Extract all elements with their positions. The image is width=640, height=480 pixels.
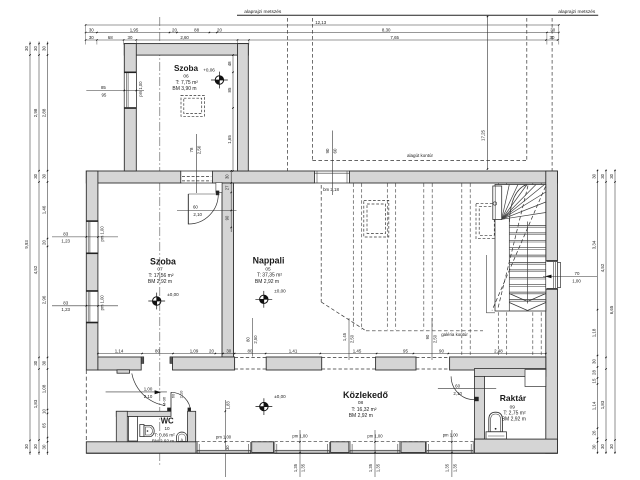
left dim line detail <box>41 42 48 456</box>
drop line 1,35 at 375 <box>368 430 381 477</box>
wall bottom pier 3 <box>401 442 426 453</box>
svg-text:galéria kontúr: galéria kontúr <box>441 332 468 337</box>
svg-text:pm 1,00: pm 1,00 <box>443 432 459 437</box>
leader door 60 2,10 <box>177 210 237 212</box>
wc toilet <box>140 425 154 437</box>
svg-text:1,45: 1,45 <box>342 332 347 341</box>
svg-text:30: 30 <box>41 360 46 365</box>
label pm 1,00 szoba w1 <box>100 226 105 242</box>
extension stubs top chain <box>86 26 559 45</box>
label pm 1,00 szoba w2 <box>100 295 105 311</box>
svg-text:2,88: 2,88 <box>41 108 46 117</box>
svg-text:2,10: 2,10 <box>179 390 184 399</box>
svg-text:2,50: 2,50 <box>253 335 258 344</box>
svg-text:Raktár: Raktár <box>500 393 527 403</box>
leader door raktar 60 2,10 <box>438 383 496 396</box>
raktar toilet <box>486 412 506 439</box>
svg-text:3,34: 3,34 <box>591 240 596 249</box>
wall middle pier 2 <box>376 357 416 370</box>
label door 60 2,10 <box>193 204 203 217</box>
wall szoba-nappali vertical <box>222 183 234 357</box>
svg-text:80: 80 <box>248 348 253 353</box>
left dim line 9,93 <box>24 42 31 456</box>
wall main top left segment <box>86 171 181 183</box>
svg-text:1,14: 1,14 <box>115 348 124 353</box>
svg-text:20: 20 <box>41 240 46 245</box>
svg-text:1,65: 1,65 <box>227 135 232 144</box>
svg-text:bm 2,18: bm 2,18 <box>323 187 339 192</box>
svg-text:07: 07 <box>157 267 163 273</box>
section line <box>237 14 598 16</box>
svg-text:9,93: 9,93 <box>24 240 29 249</box>
drop line 1,35 at 451.9 <box>445 430 458 477</box>
label WC 10 <box>152 416 175 443</box>
svg-text:17,25: 17,25 <box>480 129 485 141</box>
window right wall <box>546 261 561 290</box>
svg-text:pm 1,00: pm 1,00 <box>292 433 308 438</box>
svg-text:28: 28 <box>591 370 596 375</box>
label kozlekedo +-0,00 <box>274 394 286 399</box>
wall middle door jamb step <box>117 370 130 373</box>
wall middle segment 2 <box>173 357 235 370</box>
bottom wall window sills <box>197 442 473 453</box>
svg-text:83: 83 <box>63 232 68 237</box>
svg-text:T: 37,35 m²: T: 37,35 m² <box>257 273 282 279</box>
label bm 2,18 <box>323 187 339 192</box>
svg-text:90: 90 <box>425 334 430 339</box>
dim window 83 1,23 (2) <box>52 300 118 312</box>
svg-text:2,50: 2,50 <box>432 334 437 343</box>
svg-text:30: 30 <box>609 173 614 178</box>
label alagut kontur <box>407 153 434 158</box>
svg-text:90: 90 <box>439 348 444 353</box>
staircase <box>486 185 546 313</box>
svg-text:1,83: 1,83 <box>33 399 38 408</box>
wall main right <box>546 171 558 453</box>
svg-text:30: 30 <box>600 444 605 449</box>
svg-text:80: 80 <box>246 337 251 342</box>
svg-text:30: 30 <box>33 46 38 51</box>
label Szoba 07 <box>148 257 176 286</box>
svg-text:06: 06 <box>183 74 189 80</box>
dim window 85 95 <box>86 85 144 97</box>
svg-text:1,23: 1,23 <box>61 307 70 312</box>
svg-text:BM 2,92 m: BM 2,92 m <box>148 279 172 285</box>
svg-text:30: 30 <box>89 27 94 32</box>
opening bm 2,18 <box>315 171 350 183</box>
gallery joist dashed strips <box>353 184 541 357</box>
door jamb middle wall left <box>141 357 144 364</box>
svg-text:BM 2,92 m: BM 2,92 m <box>349 413 373 419</box>
svg-text:30: 30 <box>591 173 596 178</box>
wall bottom dashed top edge <box>196 441 474 443</box>
niche below top room <box>181 171 213 183</box>
galeria kontur dashed <box>321 185 483 331</box>
svg-text:10: 10 <box>41 409 46 414</box>
svg-text:20: 20 <box>209 348 214 353</box>
svg-text:1,08: 1,08 <box>41 384 46 393</box>
svg-text:BM 2,92 m: BM 2,92 m <box>255 279 279 285</box>
label pm 1,00 top room <box>138 81 143 97</box>
svg-text:60: 60 <box>333 148 338 153</box>
svg-text:30: 30 <box>226 348 231 353</box>
leader window 70 1,00 <box>543 271 597 283</box>
leader door 1,00 2,10 <box>106 386 167 399</box>
svg-text:2,60: 2,60 <box>180 35 189 40</box>
right dim line 6,65 <box>609 170 616 455</box>
svg-text:±0,00: ±0,00 <box>274 394 286 399</box>
drop line 1,35 at 300 <box>293 430 306 477</box>
wall middle pier 1 <box>266 357 322 370</box>
wall middle right segment <box>450 357 546 370</box>
svg-text:30: 30 <box>550 27 555 32</box>
svg-text:30: 30 <box>24 444 29 449</box>
label Szoba 06 <box>172 64 198 92</box>
svg-text:M-06: M-06 <box>162 396 167 406</box>
bottom outer line <box>86 452 557 454</box>
svg-text:30: 30 <box>225 445 230 450</box>
svg-text:30: 30 <box>41 173 46 178</box>
wall raktar left <box>474 376 484 439</box>
dim 17,25 line <box>487 16 488 170</box>
svg-text:4,52: 4,52 <box>33 265 38 274</box>
labels wc door rotated <box>162 390 184 406</box>
label 17,25 <box>480 129 485 141</box>
svg-text:15: 15 <box>591 378 596 383</box>
wall wc top <box>116 411 171 416</box>
svg-text:20: 20 <box>172 27 177 32</box>
svg-text:30: 30 <box>33 173 38 178</box>
alagut kontur dashed inner-left line <box>311 18 313 161</box>
svg-text:±0,00: ±0,00 <box>274 288 286 293</box>
svg-text:2,96: 2,96 <box>41 295 46 304</box>
wall raktar top <box>474 369 545 377</box>
alagut kontur dashed inner-right line <box>526 18 528 161</box>
raktar niche <box>525 370 546 387</box>
svg-text:30: 30 <box>600 173 605 178</box>
svg-text:1,45: 1,45 <box>353 348 362 353</box>
survey point top room <box>211 72 228 89</box>
label Nappali 05 <box>253 256 285 286</box>
svg-text:2,98: 2,98 <box>33 108 38 117</box>
svg-text:2,10: 2,10 <box>144 394 153 399</box>
alagut kontur dashed left line <box>287 18 289 171</box>
svg-text:2,50: 2,50 <box>349 334 354 343</box>
door jamb szoba upper <box>216 183 222 196</box>
door raktar jamb <box>474 397 478 401</box>
label szoba +-0,00 <box>167 292 179 297</box>
label alaprajzi metszes right <box>558 9 596 15</box>
label pm 1,00 k1 <box>292 433 308 438</box>
label alaprajzi metszes left <box>244 9 282 15</box>
svg-text:65: 65 <box>41 423 46 428</box>
svg-text:1,46: 1,46 <box>41 205 46 214</box>
svg-text:7,65: 7,65 <box>390 35 399 40</box>
opening callout 1,45 2,50 <box>342 318 354 360</box>
svg-text:80: 80 <box>155 348 160 353</box>
svg-text:27: 27 <box>224 185 229 190</box>
svg-text:BM 2,92 m: BM 2,92 m <box>502 416 526 422</box>
svg-text:1,00: 1,00 <box>144 386 153 391</box>
svg-text:30: 30 <box>591 444 596 449</box>
svg-text:pm 1,00: pm 1,00 <box>138 81 143 97</box>
wc small basin <box>177 432 188 442</box>
svg-text:95: 95 <box>403 348 408 353</box>
svg-text:30: 30 <box>89 35 94 40</box>
svg-text:60: 60 <box>170 393 175 398</box>
svg-text:30: 30 <box>24 46 29 51</box>
svg-text:pm 1,00: pm 1,00 <box>216 435 232 440</box>
svg-text:85: 85 <box>227 87 232 92</box>
svg-text:1,00: 1,00 <box>572 278 581 283</box>
svg-text:05: 05 <box>265 266 271 272</box>
centre dash-dot axis <box>159 17 161 467</box>
label pm 1,00 k3 <box>443 432 459 437</box>
wc pm line <box>225 400 231 477</box>
svg-text:30: 30 <box>33 444 38 449</box>
wall top room right <box>238 44 249 171</box>
svg-text:95: 95 <box>101 92 106 97</box>
label galeria kontur <box>441 332 468 337</box>
svg-text:2,10: 2,10 <box>193 212 202 217</box>
svg-text:20: 20 <box>217 27 222 32</box>
wall main top right segment <box>350 171 558 183</box>
svg-text:90: 90 <box>224 215 229 220</box>
window szoba left 1 <box>86 221 98 254</box>
svg-text:1,83: 1,83 <box>600 400 605 409</box>
alagut kontur dashed right line <box>551 18 553 171</box>
dim line 90 60 opening <box>325 131 337 196</box>
middle wall dashed opening 321.7 <box>322 358 376 369</box>
wall bottom pier 2 <box>331 442 349 453</box>
svg-text:1,95: 1,95 <box>130 27 139 32</box>
wall wc left block <box>116 411 127 442</box>
svg-text:26: 26 <box>591 430 596 435</box>
svg-text:±0,00: ±0,00 <box>167 292 179 297</box>
svg-text:1,18: 1,18 <box>591 328 596 337</box>
wall main left <box>86 171 98 370</box>
wall bottom under raktar <box>474 439 557 453</box>
wall main top middle segment <box>213 171 315 183</box>
svg-text:1,23: 1,23 <box>61 238 70 243</box>
wall middle left segment <box>98 357 141 370</box>
svg-text:BM 3,90 m: BM 3,90 m <box>172 86 196 92</box>
svg-text:30: 30 <box>224 174 229 179</box>
svg-text:T: 0,86 m²: T: 0,86 m² <box>154 432 175 437</box>
svg-text:1,35: 1,35 <box>445 463 450 472</box>
door wc jamb 1 <box>167 408 171 412</box>
svg-text:30: 30 <box>41 46 46 51</box>
svg-text:70: 70 <box>575 271 580 276</box>
middle wall dashed opening 416 <box>416 358 450 369</box>
svg-text:1,35: 1,35 <box>376 463 381 472</box>
svg-text:83: 83 <box>63 300 68 305</box>
svg-text:88: 88 <box>194 27 199 32</box>
wall bottom pier 1 <box>252 442 274 453</box>
label pm 1,00 k2 <box>367 433 383 438</box>
opening callout 80 2,50 <box>246 318 258 357</box>
dim chain 30 68 30 2,60 7,65 30 <box>85 35 558 41</box>
svg-text:08: 08 <box>358 400 364 406</box>
wall top room left <box>124 44 136 171</box>
label pm 1,00 wc <box>216 435 232 440</box>
survey point nappali <box>255 291 272 308</box>
svg-text:78: 78 <box>189 147 194 152</box>
svg-text:1,14: 1,14 <box>591 401 596 410</box>
svg-text:pm 1,00: pm 1,00 <box>367 433 383 438</box>
svg-text:12,13: 12,13 <box>315 20 327 25</box>
wall bottom under wc <box>86 442 196 453</box>
svg-text:pm 1,00: pm 1,00 <box>100 295 105 311</box>
dim window 83 1,23 (1) <box>52 232 118 244</box>
opening callout 90 2,50 <box>425 318 437 360</box>
wall wc right <box>188 411 196 442</box>
survey point szoba <box>148 293 165 310</box>
rooflight dashed box 1 <box>364 200 389 237</box>
svg-text:4,52: 4,52 <box>600 263 605 272</box>
svg-text:Nappali: Nappali <box>253 256 285 266</box>
svg-text:Szoba: Szoba <box>174 64 199 73</box>
door wc arc <box>171 392 191 412</box>
svg-text:2,50: 2,50 <box>197 145 202 154</box>
label +0,06 <box>203 68 215 73</box>
left wall dashed continuation <box>85 370 87 442</box>
window top room <box>124 72 136 109</box>
wall top room top <box>124 44 248 56</box>
svg-text:1,41: 1,41 <box>289 348 298 353</box>
svg-text:Közlekedő: Közlekedő <box>343 390 389 400</box>
svg-text:1,83: 1,83 <box>226 401 231 410</box>
wc shower tray <box>128 417 137 442</box>
svg-text:2,10: 2,10 <box>453 391 462 396</box>
right dim line 3,34 1,18 <box>591 170 598 455</box>
svg-text:Szoba: Szoba <box>150 257 176 267</box>
svg-text:alaprajzi metszés: alaprajzi metszés <box>244 9 282 15</box>
label Kozlekedo 08 <box>343 390 389 419</box>
svg-text:60: 60 <box>455 383 460 388</box>
svg-text:30: 30 <box>591 359 596 364</box>
left dim line 4,52 1,83 <box>33 42 40 456</box>
door jamb middle wall right <box>170 357 173 364</box>
svg-text:30: 30 <box>128 35 133 40</box>
dim line 78 2,50 <box>189 134 201 193</box>
middle wall dashed opening 234.6 <box>235 358 267 369</box>
svg-text:alaprajzi metszés: alaprajzi metszés <box>558 9 596 15</box>
right dim line 4,52 1,83 <box>600 170 607 455</box>
svg-text:1,09: 1,09 <box>190 348 199 353</box>
svg-text:48: 48 <box>227 61 232 66</box>
svg-text:30: 30 <box>41 444 46 449</box>
dim top room 48 85 1,65 <box>227 54 234 171</box>
dim middle wall chain <box>97 348 546 354</box>
svg-text:10: 10 <box>164 426 170 431</box>
door raktar arc <box>451 376 474 399</box>
svg-text:90: 90 <box>325 148 330 153</box>
alagut kontur dashed bottom line <box>312 160 526 162</box>
svg-text:6,65: 6,65 <box>609 305 614 314</box>
dim wall 30 27 90 <box>224 170 232 232</box>
dim chain 30 1,95 20 88 20 8,30 30 <box>85 27 560 33</box>
svg-text:1,35: 1,35 <box>293 463 298 472</box>
label nappali +-0,00 <box>274 288 286 293</box>
svg-text:60: 60 <box>193 204 198 209</box>
survey point kozlekedo <box>256 398 273 415</box>
svg-text:+0,06: +0,06 <box>203 68 215 73</box>
svg-text:8,30: 8,30 <box>382 27 391 32</box>
window szoba left 2 <box>86 291 98 324</box>
rooflight dashed box 2 <box>476 203 498 238</box>
svg-text:1,35: 1,35 <box>453 463 458 472</box>
svg-text:WC: WC <box>161 416 174 425</box>
svg-text:pm 1,00: pm 1,00 <box>100 226 105 242</box>
svg-text:alagút kontúr: alagút kontúr <box>407 153 434 158</box>
dim chain 12,13 <box>85 20 560 26</box>
door szoba-upper arc <box>188 194 218 224</box>
svg-text:1,35: 1,35 <box>301 463 306 472</box>
svg-text:2,48: 2,48 <box>494 348 503 353</box>
label Raktar 09 <box>500 393 527 423</box>
svg-text:30: 30 <box>609 444 614 449</box>
chimney dashed box <box>181 95 205 116</box>
svg-text:85: 85 <box>101 85 106 90</box>
door szoba-lower arc <box>132 373 165 405</box>
svg-text:68: 68 <box>108 35 113 40</box>
svg-text:30: 30 <box>33 360 38 365</box>
svg-text:1,35: 1,35 <box>368 463 373 472</box>
door wc jamb 2 <box>188 408 191 412</box>
